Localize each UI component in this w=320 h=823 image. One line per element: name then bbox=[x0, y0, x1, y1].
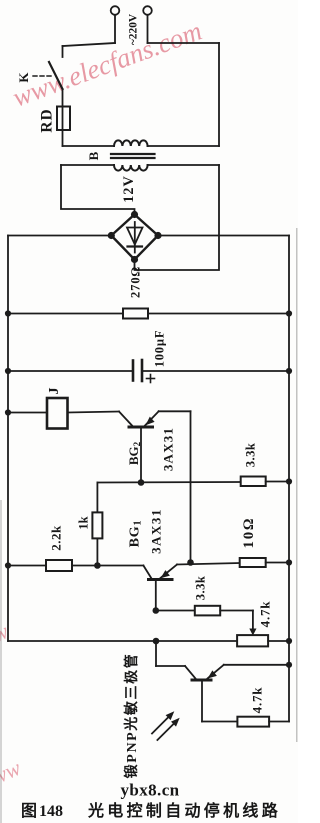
svg-text:3AX31: 3AX31 bbox=[149, 508, 164, 554]
svg-text:J: J bbox=[47, 388, 62, 395]
svg-text:3.3k: 3.3k bbox=[194, 576, 208, 601]
svg-text:锻PNP光敏三极管: 锻PNP光敏三极管 bbox=[123, 653, 140, 779]
svg-text:100µF: 100µF bbox=[153, 330, 167, 368]
svg-text:ybx8.cn: ybx8.cn bbox=[120, 781, 179, 800]
svg-text:2.2k: 2.2k bbox=[49, 525, 64, 551]
svg-text:K: K bbox=[16, 72, 31, 83]
svg-text:270Ω: 270Ω bbox=[129, 266, 143, 298]
svg-text:4.7k: 4.7k bbox=[250, 687, 265, 714]
svg-text:10Ω: 10Ω bbox=[241, 517, 257, 549]
svg-text:B: B bbox=[86, 151, 101, 160]
svg-text:1k: 1k bbox=[77, 516, 91, 529]
svg-text:RD: RD bbox=[39, 108, 56, 132]
svg-text:~220V: ~220V bbox=[128, 13, 140, 45]
svg-text:3AX31: 3AX31 bbox=[161, 427, 176, 471]
svg-text:4.7k: 4.7k bbox=[258, 601, 273, 628]
svg-text:3.3k: 3.3k bbox=[244, 443, 258, 468]
svg-text:图148光电控制自动停机线路: 图148光电控制自动停机线路 bbox=[21, 801, 281, 820]
svg-text:12V: 12V bbox=[121, 175, 137, 202]
